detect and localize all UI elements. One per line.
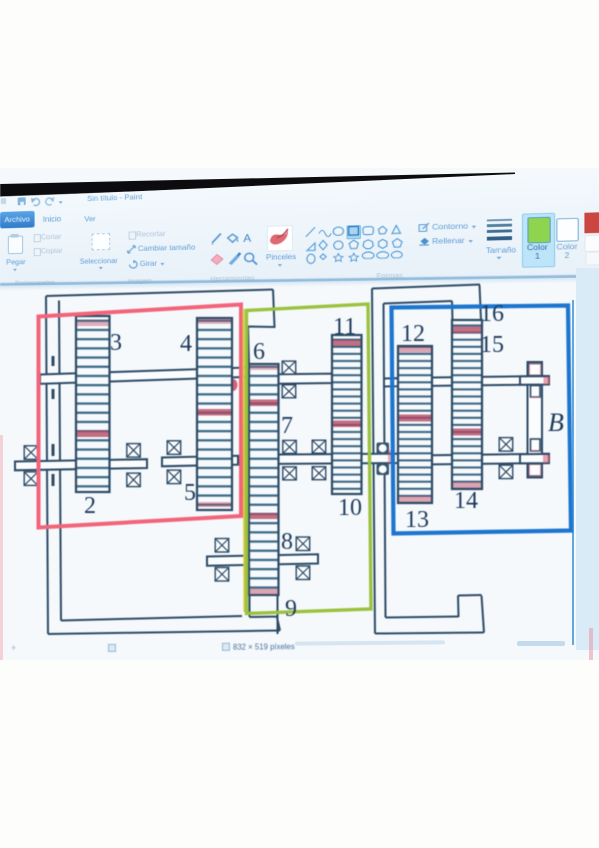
title bbox=[87, 193, 142, 203]
bearing shaft4 left lower bbox=[215, 568, 229, 582]
wall bearing ticks input shaft bbox=[52, 444, 55, 486]
box below gear 9 bbox=[250, 595, 278, 634]
gear stack 12(top)/13(bottom) bbox=[398, 346, 432, 503]
red shaft tips bbox=[542, 376, 549, 463]
svg-text:14: 14 bbox=[454, 488, 478, 514]
qat redo bbox=[44, 197, 54, 206]
bearing input-right lower bbox=[127, 473, 141, 487]
picker bbox=[229, 255, 240, 265]
pencil bbox=[212, 234, 221, 243]
bearing shaft4 right lower bbox=[296, 566, 310, 580]
bearing input-right upper bbox=[127, 444, 141, 458]
Color 2 bbox=[556, 218, 578, 242]
svg-text:13: 13 bbox=[405, 507, 429, 533]
wall bearing ticks shaft 2 bbox=[52, 356, 55, 399]
svg-text:16: 16 bbox=[480, 301, 504, 327]
circle bearings shaft3 right end bbox=[377, 443, 393, 476]
bearing countershaft upper bbox=[167, 441, 181, 455]
svg-text:3: 3 bbox=[110, 330, 122, 356]
Formas selected bg bbox=[347, 225, 361, 240]
upper shaft 2 bar left segment bbox=[40, 368, 247, 384]
gear stack 16/15(top)/14(bottom) bbox=[452, 320, 482, 489]
upper shaft 2 bar right segment bbox=[278, 374, 334, 384]
pink accents on drum bbox=[530, 364, 541, 477]
Rellenar bbox=[418, 236, 430, 247]
svg-text:11: 11 bbox=[333, 314, 356, 340]
gear stack 11(top)/10(bottom) bbox=[332, 335, 362, 494]
Pinceles big icon bbox=[267, 225, 293, 251]
bearing shaft3 left upper bbox=[283, 440, 297, 453]
tabs bbox=[0, 211, 35, 229]
input shaft A bar bbox=[15, 459, 147, 470]
upper right shaft 5 bar bbox=[432, 376, 549, 386]
magnifier bbox=[245, 253, 254, 261]
svg-text:7: 7 bbox=[281, 413, 293, 439]
svg-text:10: 10 bbox=[338, 495, 362, 521]
bearing shaft3 right lower bbox=[312, 467, 326, 480]
pink selection box (gears 2-5) bbox=[39, 305, 242, 528]
gear stack 6/7/8/9 bbox=[249, 364, 279, 595]
Seleccionar bbox=[92, 233, 110, 250]
canvas top edge line bbox=[0, 275, 599, 286]
qat save icon bbox=[18, 197, 26, 205]
lower right shaft 6 bar bbox=[432, 454, 549, 465]
right screen edge bbox=[576, 268, 599, 650]
Herramientas icons bbox=[210, 230, 259, 268]
window icon bbox=[1, 198, 6, 204]
svg-text:6: 6 bbox=[253, 339, 265, 365]
Contorno bbox=[418, 222, 430, 233]
bearing shaft4 right upper bbox=[296, 537, 310, 551]
numeric labels bbox=[84, 301, 564, 622]
bearing shaft2 upper bbox=[282, 361, 296, 374]
svg-text:B: B bbox=[548, 408, 564, 437]
shaft 5 end over drum bbox=[520, 376, 549, 385]
bearing input-left upper bbox=[24, 446, 38, 460]
green selection box (gears 6-11) bbox=[247, 304, 372, 614]
bearing shaft2 lower bbox=[282, 385, 296, 398]
yellow overlap line bbox=[244, 309, 245, 612]
ribbon chrome bbox=[0, 174, 599, 288]
svg-text:5: 5 bbox=[184, 480, 196, 506]
Color 1 selected bbox=[522, 213, 555, 268]
fill bucket bbox=[228, 234, 238, 242]
blue selection box (gears 12-16, B) bbox=[392, 306, 572, 534]
svg-text:2: 2 bbox=[84, 493, 96, 519]
svg-text:15: 15 bbox=[480, 332, 504, 358]
shapes grid bbox=[305, 223, 404, 266]
shaft 6 end over drum bbox=[520, 454, 549, 464]
Tamano bbox=[487, 219, 512, 222]
red mark at gear4/shaft2 bbox=[229, 379, 238, 391]
bearing input-left lower bbox=[24, 472, 38, 486]
gearbox housing left case bbox=[46, 290, 280, 635]
svg-text:12: 12 bbox=[401, 321, 425, 347]
stub shaft gear 12 bbox=[384, 378, 398, 386]
bearing countershaft lower bbox=[167, 470, 181, 484]
bearing shaft6 upper bbox=[499, 438, 513, 452]
bearing shaft6 lower bbox=[499, 465, 513, 479]
red shaft tips over drum bbox=[543, 377, 550, 463]
Pegar button bbox=[8, 236, 23, 255]
output drum B bbox=[528, 362, 543, 478]
gearbox housing right case bbox=[372, 285, 484, 634]
group labels bbox=[15, 278, 55, 287]
lower shaft 4 bar (gear 8) bbox=[207, 554, 318, 565]
status bar bbox=[0, 635, 599, 663]
Imagen group entries bbox=[129, 231, 136, 239]
svg-text:4: 4 bbox=[180, 331, 192, 357]
svg-text:8: 8 bbox=[281, 529, 293, 555]
gear stack 4(top)/5(bottom) bbox=[197, 318, 232, 510]
countershaft bar (gear 5) bbox=[162, 456, 238, 467]
Cortar / Copiar bbox=[34, 234, 41, 242]
svg-text:9: 9 bbox=[285, 596, 297, 622]
qat undo bbox=[31, 198, 41, 207]
SCHEMATIC SVG placeholder bbox=[0, 278, 599, 670]
black wedge bbox=[0, 0, 599, 220]
middle shaft 3 bar bbox=[278, 454, 398, 464]
palette bbox=[584, 212, 599, 233]
svg-text:A: A bbox=[243, 233, 251, 245]
gear stack 3(top)/2(bottom) bbox=[76, 316, 110, 492]
bearing shaft3 right upper bbox=[312, 440, 326, 453]
bearing shaft3 left lower bbox=[283, 467, 297, 480]
eraser bbox=[211, 254, 223, 264]
bearing shaft4 left upper bbox=[215, 539, 229, 553]
